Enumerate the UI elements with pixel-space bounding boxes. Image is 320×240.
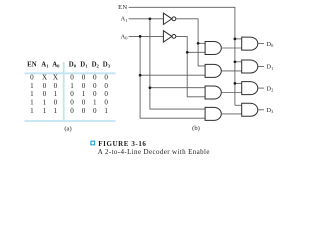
svg-text:0: 0 xyxy=(104,82,108,90)
svg-text:X: X xyxy=(53,74,58,82)
svg-text:0: 0 xyxy=(82,107,86,115)
and-gate G6 (D1) xyxy=(242,60,258,73)
svg-text:0: 0 xyxy=(70,74,74,82)
truth table vertical separator xyxy=(63,62,65,121)
svg-text:EN: EN xyxy=(27,62,37,69)
svg-text:0: 0 xyxy=(82,99,86,107)
junction dot A0-bar at G1 xyxy=(186,51,189,54)
and-gate G2 xyxy=(205,64,221,77)
svg-text:1: 1 xyxy=(30,82,34,90)
svg-text:A0: A0 xyxy=(120,33,128,40)
svg-text:A 2-to-4-Line Decoder with Ena: A 2-to-4-Line Decoder with Enable xyxy=(98,148,210,156)
and-gate G1 xyxy=(205,42,221,55)
svg-text:D2: D2 xyxy=(266,85,273,92)
svg-text:D0: D0 xyxy=(69,62,77,69)
svg-text:0: 0 xyxy=(54,82,58,90)
junction dot EN at G7 xyxy=(234,82,237,85)
truth table header row xyxy=(27,62,111,69)
svg-text:0: 0 xyxy=(43,82,47,90)
wire A1 vertical xyxy=(150,19,205,109)
svg-text:0: 0 xyxy=(93,74,97,82)
wire G3 output to G7 xyxy=(222,92,242,94)
svg-text:0: 0 xyxy=(104,74,108,82)
caption square icon xyxy=(91,141,95,145)
inverter U2 (A0) xyxy=(163,31,175,42)
wire D3 output stub xyxy=(258,109,264,111)
junction dot A0 xyxy=(139,35,142,38)
svg-text:A0: A0 xyxy=(52,62,60,69)
svg-text:1: 1 xyxy=(30,107,34,115)
wire EN branch to G7 xyxy=(235,82,242,84)
junction dot A1 xyxy=(149,17,152,20)
wire EN branch to G6 xyxy=(235,61,242,63)
svg-text:0: 0 xyxy=(70,99,74,107)
wire A0-bar branch to gate G1 xyxy=(187,51,205,53)
and-gate G3 xyxy=(205,86,221,99)
svg-text:0: 0 xyxy=(93,82,97,90)
svg-text:1: 1 xyxy=(30,99,34,107)
wire A1 input xyxy=(129,18,164,20)
svg-text:(a): (a) xyxy=(64,125,71,132)
inverter U1 (A1) xyxy=(163,13,175,24)
wire A0 branch to gate G2 xyxy=(140,74,205,76)
wire A1-bar branch to gate G1 xyxy=(198,42,205,44)
svg-text:D2: D2 xyxy=(92,62,100,69)
svg-text:0: 0 xyxy=(54,99,58,107)
wire A0-bar from inverter U2 xyxy=(176,36,205,96)
svg-text:D0: D0 xyxy=(266,41,274,48)
svg-text:1: 1 xyxy=(54,107,58,115)
svg-text:1: 1 xyxy=(82,90,86,98)
svg-text:0: 0 xyxy=(30,74,34,82)
svg-text:FIGURE 3-16: FIGURE 3-16 xyxy=(98,140,146,148)
svg-text:0: 0 xyxy=(93,90,97,98)
svg-text:0: 0 xyxy=(93,107,97,115)
svg-text:D3: D3 xyxy=(103,62,111,69)
truth table data rows xyxy=(30,74,108,115)
svg-text:1: 1 xyxy=(30,90,34,98)
truth table header rule xyxy=(25,72,116,74)
svg-text:D3: D3 xyxy=(266,107,274,114)
svg-text:A1: A1 xyxy=(41,62,49,69)
wire A0 vertical xyxy=(140,36,205,118)
junction dot A1 at G3 xyxy=(149,86,152,89)
and-gate G8 (D3) xyxy=(242,103,258,116)
and-gate G7 (D2) xyxy=(242,82,258,95)
svg-text:A1: A1 xyxy=(120,16,127,23)
and-gate G4 xyxy=(205,107,221,120)
svg-text:EN: EN xyxy=(118,4,127,11)
wire G1 output to G5 xyxy=(222,47,242,49)
svg-text:0: 0 xyxy=(43,90,47,98)
wire D0 output stub xyxy=(258,43,264,45)
svg-text:1: 1 xyxy=(70,82,74,90)
svg-text:(b): (b) xyxy=(192,125,200,132)
svg-text:0: 0 xyxy=(70,90,74,98)
svg-text:1: 1 xyxy=(43,99,47,107)
wire A0 input xyxy=(129,35,164,37)
truth table bottom rule xyxy=(25,120,116,122)
svg-text:0: 0 xyxy=(70,107,74,115)
junction dot A0 at G2 xyxy=(139,74,142,77)
wire EN horizontal+vertical xyxy=(129,7,235,105)
wire D2 output stub xyxy=(258,87,264,89)
svg-text:0: 0 xyxy=(104,99,108,107)
svg-text:1: 1 xyxy=(54,90,58,98)
svg-text:1: 1 xyxy=(93,99,97,107)
junction dot A1-bar at G1 xyxy=(197,42,200,45)
svg-text:D1: D1 xyxy=(266,64,273,71)
wire A1-bar from inverter U1 xyxy=(176,19,205,66)
svg-text:0: 0 xyxy=(82,82,86,90)
svg-text:0: 0 xyxy=(82,74,86,82)
wire A1 branch to gate G3 xyxy=(150,87,205,89)
wire EN branch to G8 xyxy=(235,104,242,106)
svg-text:1: 1 xyxy=(104,107,108,115)
wire G2 output to G6 xyxy=(222,70,242,72)
junction dot EN at G5 xyxy=(234,38,237,41)
svg-text:0: 0 xyxy=(104,90,108,98)
svg-text:1: 1 xyxy=(43,107,47,115)
svg-text:D1: D1 xyxy=(80,62,88,69)
wire D1 output stub xyxy=(258,66,264,68)
wire G4 output to G8 xyxy=(222,113,242,115)
wire EN branch to G5 xyxy=(235,38,242,40)
junction dot EN at G6 xyxy=(234,60,237,63)
and-gate G5 (D0) xyxy=(242,37,258,50)
svg-text:X: X xyxy=(42,74,47,82)
